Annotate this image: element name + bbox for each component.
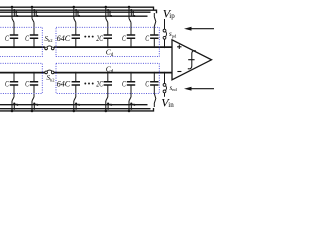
switch group bottom 2C' — [105, 97, 113, 112]
capacitor bottom C2' — [30, 72, 38, 97]
dashed box segment bottom left — [0, 63, 42, 93]
svg-text:C: C — [25, 80, 29, 89]
switch Snd — [163, 84, 166, 93]
svg-text:C: C — [122, 80, 126, 89]
svg-text:snd: snd — [170, 84, 178, 92]
wire switch bus top — [0, 15, 148, 17]
wire switch bus bottom — [0, 104, 148, 106]
wire Vin lead lower — [164, 93, 166, 97]
wire arrow top — [191, 28, 215, 30]
svg-text:64C: 64C — [57, 34, 71, 43]
capacitor bottom 64C' — [72, 72, 80, 97]
label + input — [177, 45, 181, 49]
switch reset bottom right — [154, 90, 156, 107]
wire rail Vrp top — [0, 7, 154, 10]
switch group top 64C — [73, 6, 81, 23]
latch clock symbol — [188, 51, 196, 69]
wire Vip lead lower — [164, 39, 166, 47]
capacitor bottom C1' — [10, 72, 18, 97]
svg-text:C: C — [145, 80, 149, 89]
switch reset top right — [154, 13, 156, 30]
capacitor top C7 — [150, 30, 158, 48]
wire top-plate bus P — [0, 46, 45, 48]
svg-text:C: C — [25, 34, 29, 43]
svg-text:2C: 2C — [96, 81, 103, 89]
svg-text:C: C — [145, 34, 149, 43]
wire arrow bottom — [191, 88, 215, 90]
svg-text:Cd: Cd — [106, 64, 114, 74]
capacitor bottom C5' — [127, 72, 135, 97]
ellipsis bottom — [84, 83, 93, 85]
switch Sb2 top — [45, 46, 54, 50]
svg-text:Sb2: Sb2 — [47, 74, 55, 82]
capacitor top C1 — [10, 22, 18, 48]
wire top-plate bus N — [0, 72, 45, 74]
switch group top C1 — [11, 6, 19, 23]
capacitor bottom 2C' — [104, 72, 112, 97]
wire Vin lead upper — [164, 73, 166, 84]
switch group top C5 — [128, 6, 136, 23]
svg-text:C: C — [5, 34, 9, 43]
switch group bottom C2' — [31, 97, 39, 112]
svg-text:Sb2: Sb2 — [45, 35, 53, 43]
wire rail Vrn top — [0, 11, 151, 13]
switch Spd — [163, 29, 166, 39]
svg-text:C: C — [5, 80, 9, 89]
ellipsis top — [84, 36, 93, 38]
dashed box Cd bottom right — [56, 63, 159, 93]
capacitor top C2 — [30, 22, 38, 48]
node N junction — [164, 72, 166, 74]
wire Vip lead — [164, 19, 166, 29]
capacitor top C5 — [127, 22, 135, 48]
wire rail Vrp bottom — [0, 108, 154, 111]
svg-text:in: in — [168, 101, 174, 109]
wire rail Vrn bottom — [0, 108, 151, 110]
capacitor top 2C — [104, 22, 112, 48]
svg-text:C: C — [122, 34, 126, 43]
wire rail Vcm top — [0, 10, 157, 13]
svg-text:64C: 64C — [57, 79, 71, 88]
switch Sb2 bottom — [45, 70, 54, 74]
svg-text:spd: spd — [169, 30, 177, 38]
capacitor bottom C7' — [150, 72, 158, 90]
switch group top C2 — [31, 6, 39, 23]
switch group bottom C1' — [11, 97, 19, 112]
svg-text:ip: ip — [169, 12, 175, 20]
switch group bottom 64C' — [73, 97, 81, 112]
switch group bottom C5' — [128, 97, 136, 112]
dashed box Cd top right — [56, 27, 159, 56]
dashed box segment top left — [0, 27, 42, 56]
svg-text:Cd: Cd — [106, 48, 114, 58]
capacitor top 64C — [72, 22, 80, 48]
op-amp comparator U1 — [172, 40, 212, 80]
switch group top 2C — [105, 6, 113, 23]
svg-text:2C: 2C — [96, 35, 103, 43]
label - input — [177, 71, 181, 73]
node P junction — [164, 46, 166, 48]
